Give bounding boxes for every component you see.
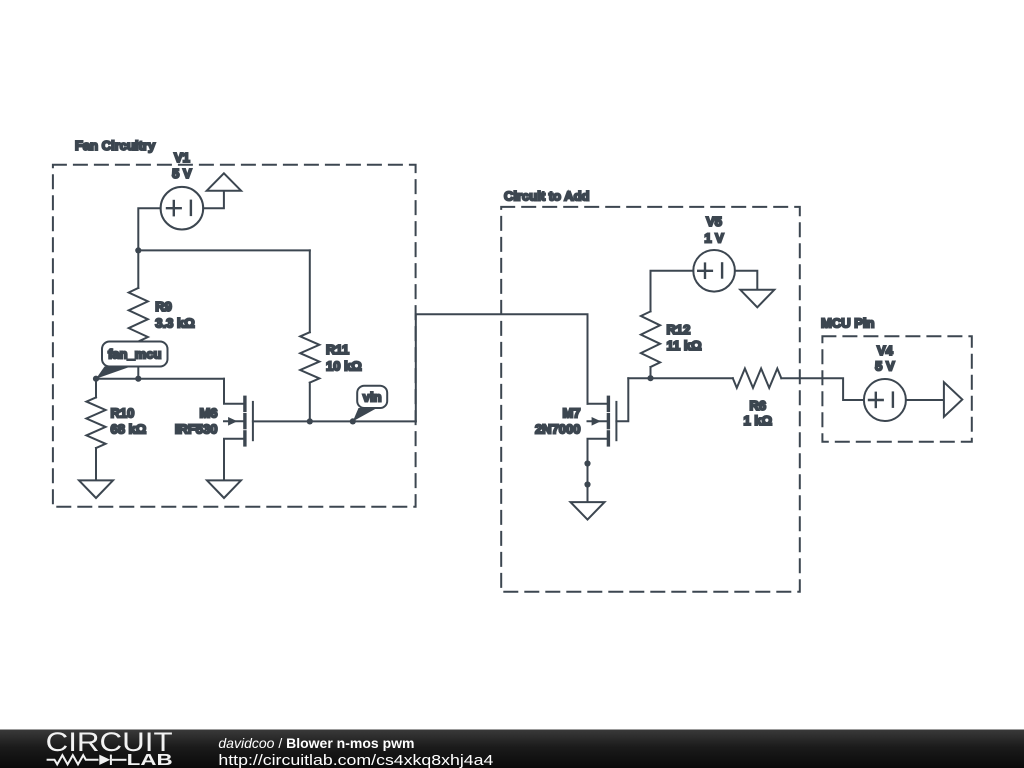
svg-text:2N7000: 2N7000 bbox=[535, 421, 581, 436]
voltage source V5 bbox=[693, 250, 735, 292]
svg-text:R6: R6 bbox=[749, 398, 766, 413]
enclosure box: Circuit to Add (dashed) bbox=[501, 207, 800, 592]
resistor R10 bbox=[86, 379, 105, 481]
svg-text:V5: V5 bbox=[706, 214, 722, 229]
wire V4 right lead to output flag bbox=[906, 399, 944, 401]
svg-text:M7: M7 bbox=[562, 405, 580, 420]
svg-text:vin: vin bbox=[363, 390, 382, 405]
node junction fan_mcu under R9 bbox=[135, 376, 141, 382]
node junction on M7 source wire (lower) bbox=[584, 481, 590, 487]
svg-text:IRF530: IRF530 bbox=[175, 421, 218, 436]
svg-text:http://circuitlab.com/cs4xkq8x: http://circuitlab.com/cs4xkq8xhj4a4 bbox=[218, 753, 493, 768]
wire fan_mcu row bbox=[96, 378, 224, 380]
footer bar bbox=[0, 730, 1024, 768]
svg-text:5 V: 5 V bbox=[875, 358, 895, 373]
svg-text:1 V: 1 V bbox=[704, 231, 724, 246]
ground under M7 bbox=[571, 502, 605, 519]
svg-text:V4: V4 bbox=[877, 343, 894, 358]
resistor R12 bbox=[641, 311, 660, 378]
svg-text:M6: M6 bbox=[199, 405, 217, 420]
svg-text:Circuit to Add: Circuit to Add bbox=[504, 189, 590, 204]
svg-text:5 V: 5 V bbox=[172, 166, 192, 181]
wire M7 gate lead riser bbox=[616, 378, 628, 421]
voltage source V1 bbox=[161, 187, 204, 230]
node junction R12 bottom bbox=[647, 375, 653, 381]
wire V1 right lead to power flag bbox=[203, 191, 224, 209]
svg-text:R12: R12 bbox=[667, 322, 691, 337]
svg-text:10 kΩ: 10 kΩ bbox=[326, 358, 362, 373]
wire 5V rail to R11 bbox=[138, 249, 309, 251]
resistor R11 bbox=[300, 250, 319, 421]
node name flag vin bbox=[353, 386, 387, 422]
svg-text:11 kΩ: 11 kΩ bbox=[667, 338, 702, 353]
ground at V5 bbox=[740, 290, 774, 308]
node junction R11 bottom bbox=[307, 418, 313, 424]
power flag VCC at V1 bbox=[207, 173, 241, 190]
ground under M6 bbox=[207, 480, 241, 498]
transistor M7 source wire to ground bbox=[588, 439, 607, 502]
wire vin net to M7 drain (between boxes) bbox=[416, 314, 588, 421]
enclosure box: MCU Pin (dashed) bbox=[822, 336, 971, 442]
svg-text:V1: V1 bbox=[174, 150, 190, 165]
output pin flag bbox=[944, 382, 962, 417]
transistor M6 drain wire bbox=[224, 379, 243, 404]
wire gate net to R6 bbox=[628, 377, 733, 379]
node junction fan_mcu left bbox=[93, 376, 99, 382]
svg-text:Fan Circuitry: Fan Circuitry bbox=[75, 138, 156, 153]
node junction on M7 source wire (upper) bbox=[584, 460, 590, 466]
svg-text:1 kΩ: 1 kΩ bbox=[744, 413, 773, 428]
resistor R6 bbox=[733, 369, 782, 388]
svg-text:LAB: LAB bbox=[127, 752, 173, 768]
wire V5 left lead to R12 bbox=[651, 271, 694, 312]
wire M6 gate row (vin net) bbox=[253, 420, 416, 422]
wire R6 to V4 (into MCU Pin box) bbox=[781, 378, 864, 400]
svg-text:R9: R9 bbox=[155, 299, 172, 314]
node name flag fan_mcu bbox=[96, 342, 168, 379]
svg-text:MCU Pin: MCU Pin bbox=[821, 315, 875, 330]
enclosure box: Fan Circuitry (dashed) bbox=[53, 165, 416, 507]
CircuitLab logo resistor-diode glyph bbox=[47, 755, 127, 765]
svg-text:davidcoo / Blower n-mos pwm: davidcoo / Blower n-mos pwm bbox=[218, 735, 414, 751]
wire V5 right lead to ground bbox=[735, 271, 757, 290]
svg-text:R10: R10 bbox=[111, 406, 135, 421]
node junction at 5V rail bbox=[135, 247, 141, 253]
transistor M6 source wire to ground bbox=[224, 439, 243, 481]
svg-text:R11: R11 bbox=[326, 342, 349, 357]
wire V1 left lead to node bbox=[138, 208, 160, 250]
transistor M7 drain wire bbox=[588, 403, 607, 405]
node junction vin anchor bbox=[350, 418, 356, 424]
resistor R9 bbox=[129, 250, 148, 378]
voltage source V4 bbox=[864, 379, 906, 421]
transistor M7 (NMOS 2N7000) bbox=[588, 397, 617, 445]
transistor M6 (NMOS IRF530) bbox=[224, 397, 253, 445]
svg-text:fan_mcu: fan_mcu bbox=[108, 347, 162, 362]
svg-text:68 kΩ: 68 kΩ bbox=[111, 422, 147, 437]
ground under R10 bbox=[79, 480, 113, 498]
svg-text:3.3 kΩ: 3.3 kΩ bbox=[155, 316, 194, 331]
